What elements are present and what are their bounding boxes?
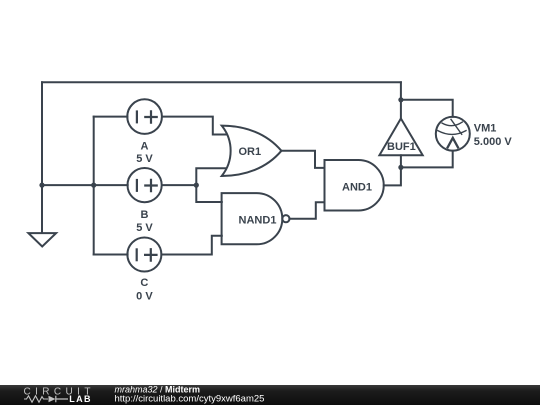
svg-text:LAB: LAB	[69, 394, 92, 404]
wire C left stub	[94, 254, 128, 256]
voltmeter VM1	[436, 117, 470, 151]
wire BUF1 input stub	[400, 155, 402, 167]
wire node up to OR1 bottom input	[196, 168, 226, 185]
wire A to OR1 top input	[162, 117, 227, 135]
svg-text:5 V: 5 V	[136, 153, 153, 165]
node junction B output	[194, 183, 199, 188]
wire VM1 bottom to node	[401, 151, 453, 168]
wire B row left	[42, 184, 128, 186]
wire C to NAND1 bottom input	[161, 236, 221, 255]
svg-text:0 V: 0 V	[136, 290, 153, 302]
CircuitLab logo	[24, 386, 95, 404]
svg-text:5 V: 5 V	[136, 222, 153, 234]
svg-text:5.000 V: 5.000 V	[474, 136, 513, 148]
wire top net	[42, 81, 401, 83]
svg-text:C: C	[140, 277, 148, 289]
wire node down to NAND1 top input	[196, 185, 222, 202]
wire B to node	[162, 184, 196, 186]
buffer BUF1	[379, 119, 422, 156]
wire A-C left vertical	[93, 117, 95, 255]
and-gate AND1	[325, 160, 384, 211]
node junction BUF1 input	[398, 165, 403, 170]
wire node to VM1 top	[401, 100, 453, 117]
wire AND1 output to node	[384, 167, 401, 185]
node junction B-left	[39, 183, 44, 188]
nand-gate NAND1	[222, 193, 290, 244]
svg-text:BUF1: BUF1	[387, 141, 416, 153]
svg-text:OR1: OR1	[238, 146, 261, 158]
node junction BUF1 output	[398, 97, 403, 102]
voltage source B	[128, 168, 162, 202]
svg-text:A: A	[141, 141, 149, 153]
wire BUF1 output up to top net	[400, 82, 402, 118]
svg-text:VM1: VM1	[474, 123, 497, 135]
voltage source C	[127, 238, 161, 272]
wire A left stub	[94, 116, 128, 118]
or-gate OR1	[222, 126, 282, 176]
node junction A-C vertical	[91, 183, 96, 188]
svg-text:http://circuitlab.com/cyty9xwf: http://circuitlab.com/cyty9xwf6am25	[115, 393, 265, 404]
voltage source A	[127, 99, 162, 134]
svg-text:B: B	[141, 209, 149, 221]
wire left vertical	[41, 82, 43, 233]
wire OR1 output to AND1 top input	[281, 151, 324, 168]
svg-text:NAND1: NAND1	[239, 215, 277, 227]
wire NAND1 output to AND1 bottom input	[289, 202, 324, 218]
ground	[28, 233, 56, 246]
svg-text:AND1: AND1	[342, 181, 372, 193]
